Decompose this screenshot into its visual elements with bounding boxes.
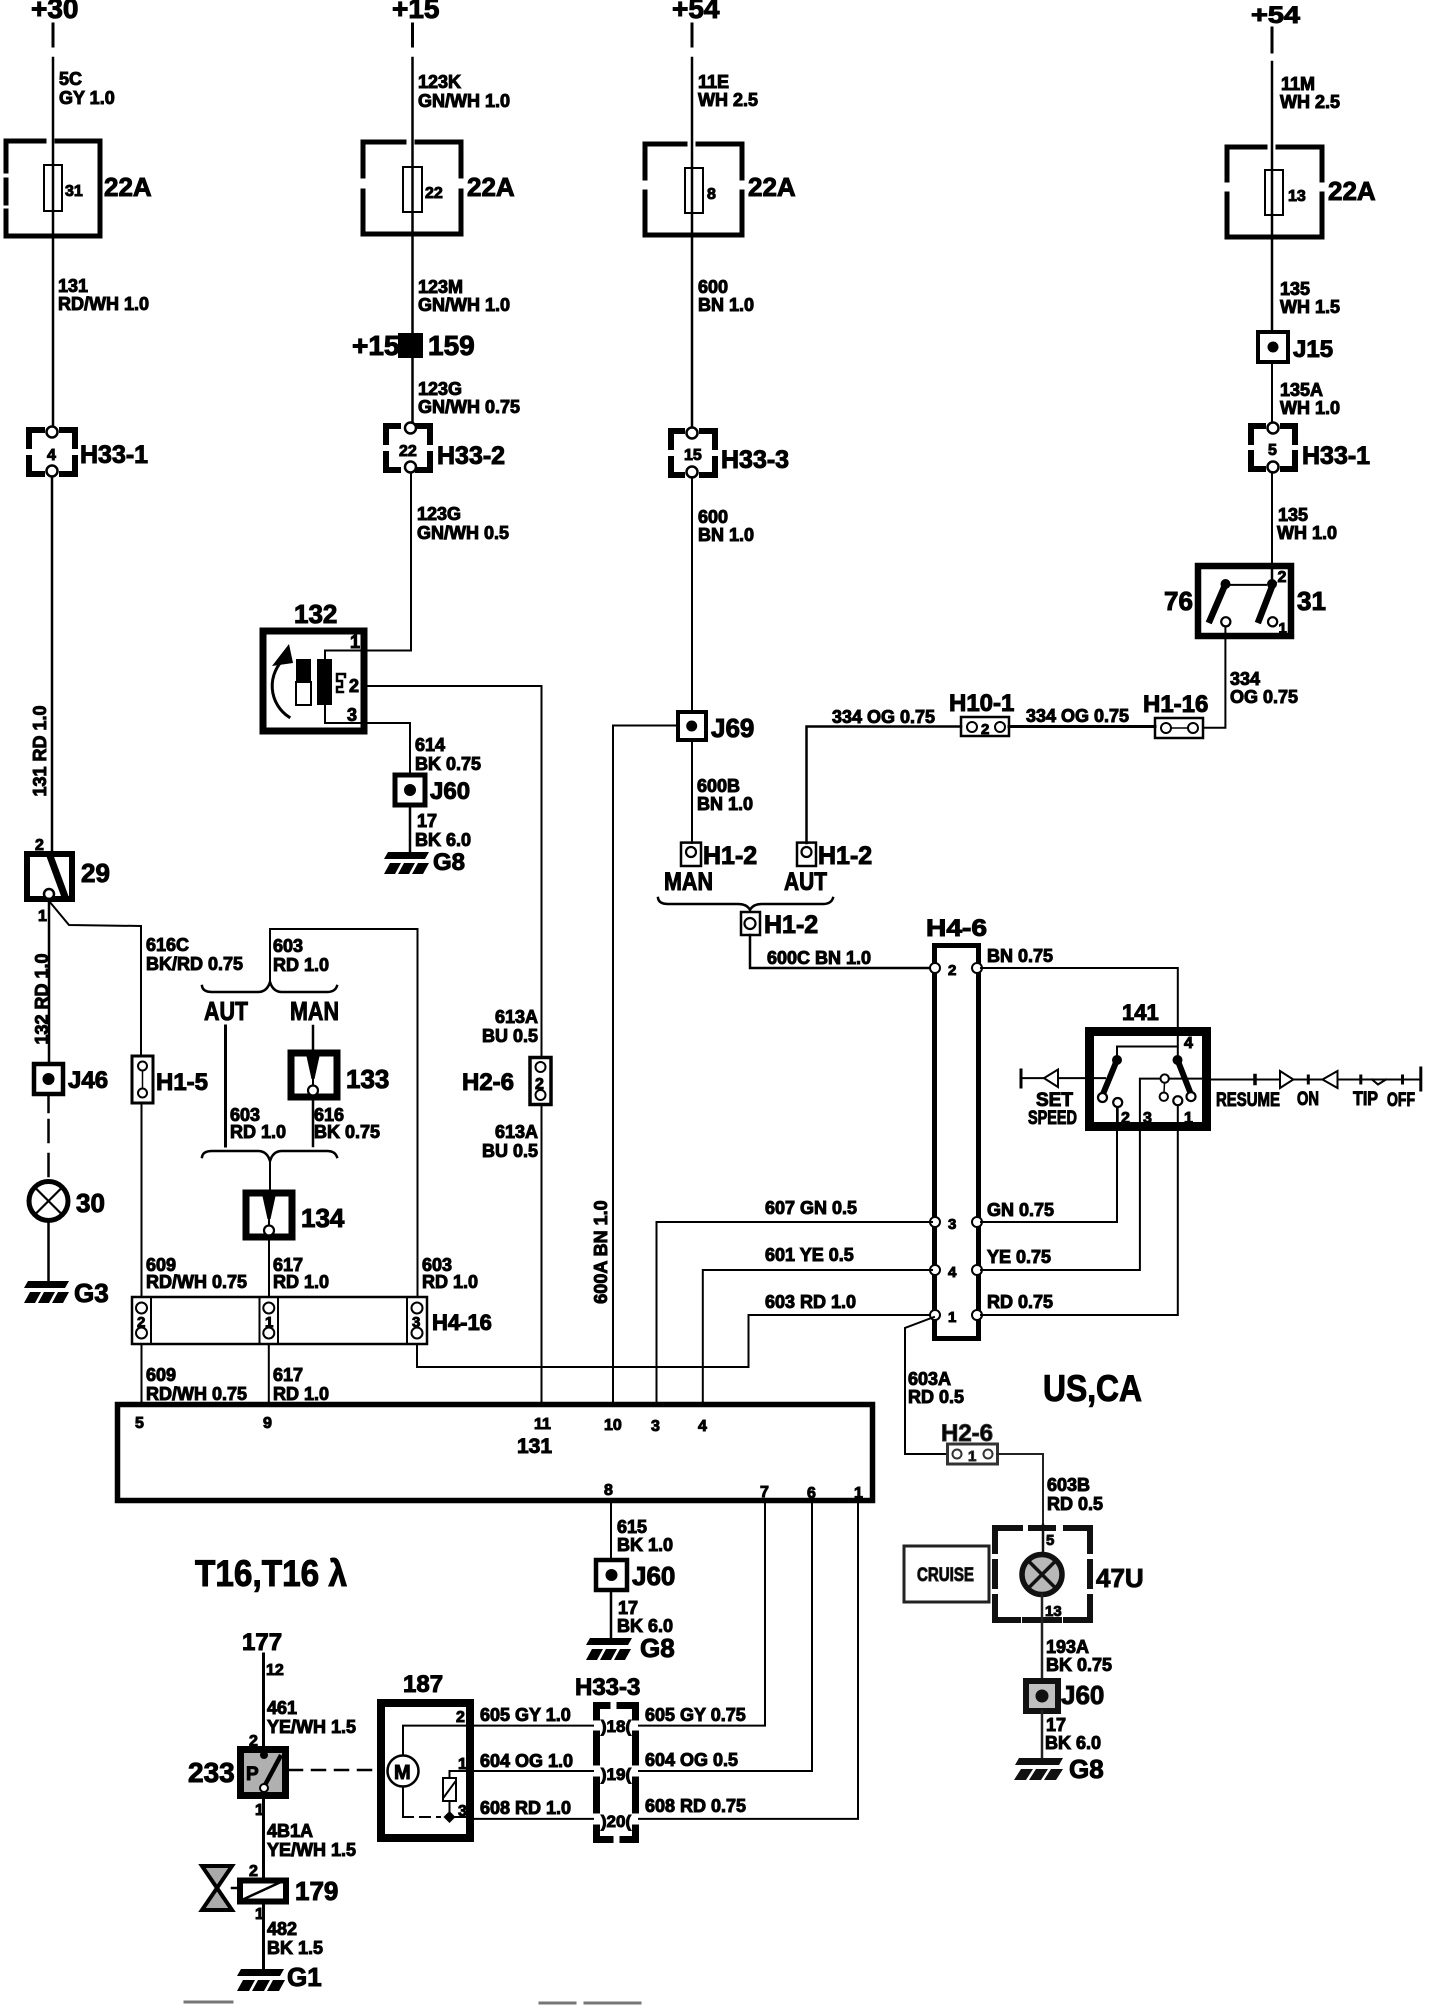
svg-text:RD 1.0: RD 1.0: [273, 955, 329, 975]
svg-text:600C BN 1.0: 600C BN 1.0: [767, 948, 871, 968]
connector H1-2 (common): [741, 911, 818, 939]
svg-text:617: 617: [273, 1365, 303, 1385]
svg-text:11M: 11M: [1281, 74, 1315, 94]
svg-text:P: P: [246, 1764, 259, 1785]
node +54 (left): [672, 0, 720, 24]
svg-text:615: 615: [617, 1517, 647, 1537]
svg-text:3: 3: [347, 705, 357, 725]
svg-text:604 OG 1.0: 604 OG 1.0: [480, 1751, 573, 1771]
svg-text:29: 29: [81, 858, 110, 888]
wire label 131 RD/WH 1.0: [58, 276, 149, 314]
svg-text:604 OG 0.5: 604 OG 0.5: [645, 1750, 738, 1770]
svg-text:9: 9: [263, 1415, 272, 1432]
connector H1-2 (MAN): [664, 842, 757, 896]
svg-text:J46: J46: [68, 1067, 108, 1094]
svg-text:3: 3: [948, 1216, 956, 1233]
svg-text:5: 5: [135, 1415, 144, 1432]
svg-text:614: 614: [415, 735, 445, 755]
wire +15 dashed feed: [411, 24, 414, 46]
node +30: [31, 0, 79, 24]
node AUT: [204, 996, 248, 1026]
wire dashed to lamp 30: [47, 1094, 50, 1112]
svg-text:600A BN 1.0: 600A BN 1.0: [591, 1200, 611, 1303]
wire 616C branch diagonal: [49, 901, 141, 1056]
svg-text:608 RD 0.75: 608 RD 0.75: [645, 1796, 746, 1816]
svg-text:RD 1.0: RD 1.0: [273, 1272, 329, 1292]
svg-text:H2-6: H2-6: [462, 1069, 514, 1096]
svg-text:605 GY 0.75: 605 GY 0.75: [645, 1705, 746, 1725]
wire +30 dashed feed: [52, 24, 55, 46]
svg-text:BU 0.5: BU 0.5: [482, 1026, 538, 1046]
svg-text:GY 1.0: GY 1.0: [59, 88, 115, 108]
wire 600A BN 1.0 branch to pin 10: [613, 726, 678, 1403]
connector H1-2 (AUT): [784, 842, 872, 896]
svg-text:22A: 22A: [1328, 176, 1376, 206]
wire 605 GY 0.75 pin 7: [639, 1503, 765, 1726]
svg-text:)19(: )19(: [601, 1765, 632, 1784]
svg-text:J60: J60: [430, 778, 470, 805]
svg-text:RD 0.75: RD 0.75: [987, 1292, 1053, 1312]
svg-text:+15: +15: [352, 330, 400, 361]
wire 603 lower to H4-6 pin1: [417, 1315, 932, 1367]
wire 601 YE 0.5: [703, 1270, 932, 1402]
wire label 603 RD 1.0 (to H4-6): [765, 1292, 856, 1312]
svg-text:11: 11: [534, 1416, 551, 1433]
svg-text:123M: 123M: [418, 277, 463, 297]
wire 132 RD 1.0 down: [48, 899, 51, 1063]
svg-text:135: 135: [1280, 279, 1310, 299]
svg-text:BK 1.0: BK 1.0: [617, 1535, 673, 1555]
svg-text:3: 3: [651, 1418, 660, 1435]
svg-text:17: 17: [1046, 1715, 1066, 1735]
svg-text:OFF: OFF: [1387, 1090, 1415, 1111]
wire dashed 233 to 187: [289, 1769, 377, 1772]
svg-text:1: 1: [458, 1756, 467, 1773]
svg-text:605 GY 1.0: 605 GY 1.0: [480, 1705, 571, 1725]
svg-text:603 RD 1.0: 603 RD 1.0: [765, 1292, 856, 1312]
svg-text:177: 177: [242, 1629, 282, 1656]
wire 608 RD 0.75 pin 1: [639, 1503, 858, 1819]
wire 616 BK 0.75: [312, 1097, 315, 1146]
vacuum pump 187: [381, 1671, 470, 1838]
splice J69: [678, 712, 754, 743]
svg-text:133: 133: [346, 1064, 389, 1094]
wire AUT stub: [224, 1026, 227, 1146]
svg-text:H10-1: H10-1: [949, 690, 1014, 717]
connector H33-2 pin 22: [386, 423, 505, 473]
CRUISE box: [904, 1546, 989, 1602]
svg-text:OG 0.75: OG 0.75: [1230, 687, 1298, 707]
fuse 31 (22A): [6, 141, 152, 236]
svg-text:H4-6: H4-6: [926, 915, 987, 942]
svg-text:607 GN 0.5: 607 GN 0.5: [765, 1198, 857, 1218]
svg-text:T16,T16 λ: T16,T16 λ: [195, 1553, 347, 1594]
svg-text:30: 30: [76, 1188, 105, 1218]
fuse 8 (22A): [645, 144, 796, 235]
svg-text:+54: +54: [1251, 2, 1301, 29]
wire MAN stub: [312, 1026, 315, 1051]
wire 603A RD 0.5: [905, 1317, 948, 1454]
svg-text:WH 1.0: WH 1.0: [1280, 398, 1340, 418]
wire 600C BN 1.0: [750, 935, 932, 968]
svg-text:132: 132: [294, 599, 337, 629]
svg-text:BN 0.75: BN 0.75: [987, 946, 1053, 966]
scan noise marks: [185, 2002, 640, 2003]
svg-text:6: 6: [807, 1485, 816, 1502]
wire 613 from 132 pin 2: [367, 686, 542, 1057]
svg-text:G1: G1: [287, 1962, 322, 1992]
pin 1 of switch 29: [38, 908, 47, 925]
svg-text:BK 1.5: BK 1.5: [267, 1938, 323, 1958]
svg-text:H1-5: H1-5: [156, 1069, 208, 1096]
node 177: [242, 1629, 282, 1656]
RESUME ON TIP OFF actuator line: [1169, 1068, 1421, 1111]
svg-text:+54: +54: [672, 0, 720, 24]
svg-text:13: 13: [1045, 1603, 1062, 1620]
svg-text:RD 1.0: RD 1.0: [273, 1384, 329, 1404]
svg-text:J15: J15: [1293, 336, 1333, 363]
wire 617 RD 1.0: [268, 1237, 270, 1297]
wire 17 BK 6.0 (under 47U): [1041, 1711, 1044, 1758]
wire label 123M: [418, 277, 510, 315]
svg-text:RD/WH 1.0: RD/WH 1.0: [58, 294, 149, 314]
svg-text:10: 10: [604, 1417, 622, 1434]
wire 135A WH 1.0: [1271, 362, 1273, 423]
svg-text:G8: G8: [640, 1633, 675, 1663]
svg-text:5: 5: [1046, 1532, 1054, 1549]
svg-text:123G: 123G: [417, 504, 461, 524]
ground G8 (under 131): [586, 1633, 675, 1663]
wire 334 OG 0.75 up to relay: [1203, 626, 1225, 728]
switch 29 (brake/clutch): [27, 854, 110, 899]
svg-text:RD 1.0: RD 1.0: [230, 1122, 286, 1142]
svg-text:613A: 613A: [495, 1122, 538, 1142]
svg-text:609: 609: [146, 1365, 176, 1385]
svg-text:WH 1.0: WH 1.0: [1277, 523, 1337, 543]
svg-text:123K: 123K: [418, 72, 461, 92]
wire GN 0.75: [981, 1105, 1117, 1222]
svg-text:1: 1: [968, 1448, 976, 1465]
svg-text:5: 5: [1268, 442, 1277, 459]
node +54 (right): [1251, 2, 1301, 29]
svg-text:GN 0.75: GN 0.75: [987, 1200, 1054, 1220]
svg-text:31: 31: [65, 183, 83, 200]
svg-text:YE/WH 1.5: YE/WH 1.5: [267, 1840, 356, 1860]
pressure switch 233: [188, 1733, 286, 1819]
wire 604 OG 0.5 pin 6: [639, 1503, 812, 1771]
svg-text:GN/WH 1.0: GN/WH 1.0: [418, 295, 510, 315]
splice J60 (under 47U): [1026, 1680, 1104, 1711]
svg-text:1: 1: [1184, 1110, 1193, 1127]
svg-text:131: 131: [58, 276, 88, 296]
connector H1-16: [1143, 691, 1208, 738]
wire 461 YE/WH 1.5: [262, 1654, 265, 1748]
wire 5C GY 1.0: [52, 58, 55, 427]
svg-text:131: 131: [517, 1435, 552, 1458]
svg-text:193A: 193A: [1046, 1637, 1089, 1657]
wire label 123G 0.75: [418, 379, 520, 417]
wire BN 0.75: [981, 968, 1178, 1029]
svg-text:159: 159: [428, 330, 475, 361]
brace under MAN/AUT: [658, 898, 833, 910]
svg-text:3: 3: [458, 1803, 467, 1820]
svg-text:17: 17: [417, 811, 437, 831]
wire 609 lower: [141, 1344, 143, 1402]
svg-text:RD/WH 0.75: RD/WH 0.75: [146, 1272, 247, 1292]
svg-text:J69: J69: [711, 713, 754, 743]
wire label 605 GY 0.75: [645, 1705, 746, 1725]
svg-text:BK 0.75: BK 0.75: [415, 754, 481, 774]
svg-text:BK 0.75: BK 0.75: [1046, 1655, 1112, 1675]
splice J60 (under 132): [395, 775, 470, 805]
svg-text:H33-2: H33-2: [437, 442, 505, 470]
svg-text:461: 461: [267, 1698, 297, 1718]
svg-text:CRUISE: CRUISE: [917, 1565, 974, 1586]
svg-text:141: 141: [1122, 1000, 1159, 1025]
svg-text:M: M: [394, 1762, 411, 1784]
control module 131: [118, 1405, 873, 1503]
svg-text:11E: 11E: [698, 72, 729, 92]
svg-text:187: 187: [403, 1671, 443, 1698]
wire 617 to switch 134: [269, 1161, 271, 1193]
node T16,T16 lambda: [195, 1553, 347, 1594]
wire label 600 BN 1.0: [698, 277, 754, 315]
splice J15: [1258, 332, 1333, 363]
svg-text:2: 2: [456, 1709, 465, 1726]
svg-text:601 YE 0.5: 601 YE 0.5: [765, 1245, 854, 1265]
fuse 22 (22A): [363, 142, 515, 234]
svg-text:H33-3: H33-3: [575, 1674, 640, 1701]
svg-text:482: 482: [267, 1919, 297, 1939]
connector H33-1 pin 4: [29, 427, 148, 477]
svg-text:132 RD 1.0: 132 RD 1.0: [32, 953, 52, 1044]
svg-text:1: 1: [38, 908, 47, 925]
wire label 603 RD 1.0 (right of 134): [422, 1255, 478, 1292]
wire 613A labels upper: [482, 1007, 538, 1046]
svg-text:31: 31: [1297, 586, 1326, 616]
svg-text:4B1A: 4B1A: [267, 1821, 313, 1841]
wire label 334 OG 0.75 (left): [832, 707, 935, 727]
svg-text:RD 1.0: RD 1.0: [422, 1272, 478, 1292]
svg-text:GN/WH 0.75: GN/WH 0.75: [418, 397, 520, 417]
svg-text:MAN: MAN: [290, 996, 339, 1026]
svg-text:2: 2: [1121, 1110, 1130, 1127]
wire 131 RD 1.0: [51, 477, 54, 851]
svg-text:BK 0.75: BK 0.75: [314, 1122, 380, 1142]
solenoid 179: [240, 1876, 338, 1923]
svg-text:608 RD 1.0: 608 RD 1.0: [480, 1798, 571, 1818]
svg-text:WH 2.5: WH 2.5: [1280, 92, 1340, 112]
svg-text:H1-2: H1-2: [703, 842, 757, 870]
svg-text:H1-2: H1-2: [818, 842, 872, 870]
wire 617 lower: [268, 1344, 270, 1402]
svg-text:SPEED: SPEED: [1028, 1108, 1077, 1129]
svg-text:G8: G8: [433, 849, 465, 876]
connector H2-6 pin 1 (lower right): [941, 1420, 998, 1465]
relay 76 / 31: [1164, 566, 1326, 637]
wire 4B1A YE/WH 1.5: [262, 1799, 265, 1880]
fuse 13 (22A): [1227, 147, 1376, 237]
svg-text:135: 135: [1278, 505, 1308, 525]
wire AUT up to 334: [807, 727, 962, 844]
svg-text:H4-16: H4-16: [432, 1310, 492, 1335]
svg-text:H33-1: H33-1: [1302, 442, 1370, 470]
svg-text:G8: G8: [1069, 1754, 1104, 1784]
svg-text:2: 2: [948, 962, 956, 979]
svg-text:MAN: MAN: [664, 868, 713, 896]
svg-text:TIP: TIP: [1353, 1089, 1378, 1110]
svg-text:BK 6.0: BK 6.0: [1045, 1733, 1101, 1753]
svg-text:WH 1.5: WH 1.5: [1280, 297, 1340, 317]
svg-text:12: 12: [266, 1662, 284, 1679]
svg-text:22: 22: [399, 443, 417, 460]
svg-text:2: 2: [1278, 569, 1287, 586]
wire 603 RD 1.0 top corner: [270, 929, 418, 1297]
svg-text:2: 2: [535, 1076, 544, 1093]
svg-text:123G: 123G: [418, 379, 462, 399]
svg-text:22: 22: [425, 185, 443, 202]
svg-text:AUT: AUT: [204, 996, 248, 1026]
ground G1: [237, 1962, 322, 1992]
node US,CA: [1043, 1368, 1142, 1409]
svg-text:179: 179: [295, 1876, 338, 1906]
brace below 603/616: [202, 1151, 337, 1161]
svg-text:RESUME: RESUME: [1216, 1090, 1280, 1111]
wire 604 OG 1.0: [474, 1770, 593, 1772]
svg-text:600B: 600B: [697, 776, 740, 796]
ground G3: [24, 1278, 109, 1308]
wire 609 RD/WH 0.75: [141, 1103, 143, 1297]
splice J60 (under 131): [596, 1560, 675, 1591]
svg-text:8: 8: [604, 1482, 613, 1499]
svg-text:22A: 22A: [467, 172, 515, 202]
svg-text:603A: 603A: [908, 1369, 951, 1389]
wire 334 OG 0.75 (mid): [1009, 725, 1155, 728]
wire 123G GN/WH 0.5 to 132 pin1: [367, 473, 411, 651]
svg-text:134: 134: [301, 1203, 345, 1233]
svg-text:)18(: )18(: [601, 1717, 632, 1736]
svg-text:RD 0.5: RD 0.5: [1047, 1494, 1103, 1514]
wire label 608 RD 0.75: [645, 1796, 746, 1816]
wire YE 0.75: [981, 1129, 1140, 1270]
svg-text:GN/WH 1.0: GN/WH 1.0: [418, 91, 510, 111]
svg-text:WH 2.5: WH 2.5: [698, 90, 758, 110]
svg-text:J60: J60: [1061, 1680, 1104, 1710]
wire to ground G3: [47, 1221, 50, 1281]
svg-text:BK 6.0: BK 6.0: [415, 830, 471, 850]
connector H1-5: [132, 1056, 208, 1103]
wire 608 RD 1.0: [474, 1818, 593, 1820]
svg-text:76: 76: [1164, 586, 1193, 616]
svg-text:GN/WH 0.5: GN/WH 0.5: [417, 523, 509, 543]
svg-text:334 OG 0.75: 334 OG 0.75: [1026, 706, 1129, 726]
wire 135 WH 1.0 to relay: [1271, 472, 1273, 564]
wire 123K GN/WH 1.0: [411, 58, 414, 423]
svg-text:603: 603: [273, 936, 303, 956]
svg-text:4: 4: [948, 1264, 957, 1281]
wire 614 BK 0.75 from 132 pin 3: [367, 723, 410, 775]
connector H33-3 (pins 18-20): [575, 1674, 640, 1840]
SET SPEED actuator line: [1021, 1070, 1105, 1130]
svg-text:2: 2: [981, 721, 989, 738]
wire +54 dashed feed: [691, 24, 694, 46]
svg-text:AUT: AUT: [784, 868, 827, 896]
svg-text:BN 1.0: BN 1.0: [698, 295, 754, 315]
svg-text:H1-2: H1-2: [764, 911, 818, 939]
connector H33-3 pin 15: [671, 428, 789, 478]
svg-text:4: 4: [47, 447, 56, 464]
connector H10-1: [949, 690, 1014, 738]
wire label 135 WH 1.5: [1280, 279, 1340, 317]
svg-text:13: 13: [1288, 188, 1306, 205]
svg-text:+15: +15: [392, 0, 440, 24]
wire 605 GY 1.0: [474, 1725, 593, 1727]
svg-text:1: 1: [948, 1309, 956, 1326]
svg-text:22A: 22A: [748, 172, 796, 202]
wire +54 right dashed feed: [1271, 28, 1274, 52]
svg-text:YE/WH 1.5: YE/WH 1.5: [267, 1717, 356, 1737]
ground G8 (under 132): [384, 849, 465, 876]
connector H4-6: [926, 915, 987, 1339]
svg-text:2: 2: [349, 676, 359, 696]
svg-text:2: 2: [137, 1314, 145, 1331]
svg-text:BN 1.0: BN 1.0: [697, 794, 753, 814]
svg-text:RD 0.5: RD 0.5: [908, 1387, 964, 1407]
wire 607 GN 0.5: [657, 1222, 933, 1402]
ignition switch 132: [263, 599, 367, 731]
svg-text:5C: 5C: [59, 69, 82, 89]
svg-text:ON: ON: [1297, 1089, 1319, 1110]
svg-text:RD/WH 0.75: RD/WH 0.75: [146, 1384, 247, 1404]
pin 2 of switch 29: [35, 837, 44, 854]
svg-text:600: 600: [698, 277, 728, 297]
svg-text:17: 17: [618, 1598, 638, 1618]
connector H33-1 pin 5: [1251, 423, 1370, 473]
svg-text:616C: 616C: [146, 935, 189, 955]
switch 133: [291, 1053, 389, 1097]
wire label 604 OG 0.5: [645, 1750, 738, 1770]
svg-text:YE 0.75: YE 0.75: [987, 1247, 1051, 1267]
svg-text:22A: 22A: [104, 172, 152, 202]
wire 482 BK 1.5: [262, 1904, 265, 1969]
svg-text:+30: +30: [31, 0, 79, 24]
svg-text:131 RD 1.0: 131 RD 1.0: [30, 705, 50, 796]
svg-text:H33-1: H33-1: [80, 441, 148, 469]
svg-text:7: 7: [760, 1484, 769, 1501]
ground G8 (under 47U): [1014, 1754, 1104, 1784]
svg-text:1: 1: [265, 1314, 273, 1331]
svg-text:47U: 47U: [1096, 1563, 1144, 1593]
connector H4-16: [132, 1297, 492, 1344]
svg-text:3: 3: [1143, 1110, 1152, 1127]
wire 600 BN 1.0 lower: [691, 477, 693, 712]
switch 134: [246, 1193, 345, 1237]
wire 11E WH 2.5: [691, 58, 694, 428]
wire 17 BK 6.0: [409, 805, 412, 852]
svg-text:334: 334: [1230, 669, 1260, 689]
svg-text:135A: 135A: [1280, 380, 1323, 400]
svg-text:4: 4: [1184, 1035, 1193, 1052]
wire 193A BK 0.75: [1041, 1595, 1044, 1682]
svg-text:4: 4: [698, 1418, 707, 1435]
svg-text:1: 1: [854, 1485, 863, 1502]
svg-text:613A: 613A: [495, 1007, 538, 1027]
svg-text:8: 8: [707, 186, 716, 203]
svg-text:H1-16: H1-16: [1143, 691, 1208, 718]
indicator lamp 47U (dashed housing): [995, 1525, 1144, 1620]
junction +15 159: [352, 330, 475, 361]
svg-text:1: 1: [350, 632, 360, 652]
